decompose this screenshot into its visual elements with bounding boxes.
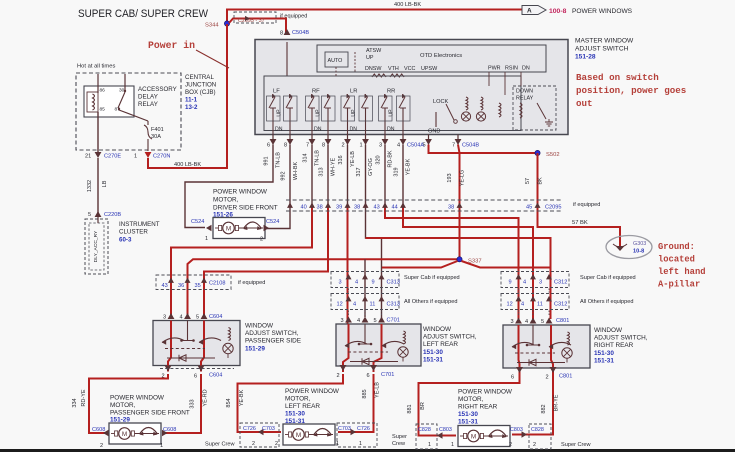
svg-text:100-8: 100-8 [549, 8, 567, 15]
svg-text:11: 11 [370, 302, 376, 308]
svg-text:ADJUST SWITCH,: ADJUST SWITCH, [594, 335, 648, 342]
svg-text:4: 4 [357, 318, 360, 324]
svg-text:C801: C801 [556, 318, 569, 324]
svg-text:Super Cab if equipped: Super Cab if equipped [580, 275, 636, 281]
svg-text:3: 3 [511, 319, 514, 325]
svg-text:C703: C703 [338, 426, 351, 432]
svg-text:5: 5 [541, 319, 544, 325]
svg-text:8: 8 [280, 31, 283, 37]
svg-text:C604: C604 [209, 373, 222, 379]
ground G303 10-8 [606, 236, 652, 259]
wire stubs auto/atsw [335, 67, 337, 76]
svg-text:334: 334 [72, 398, 78, 407]
C2095 pin at x=365.5 [363, 203, 369, 208]
accessory delay relay K-box [84, 86, 134, 117]
connector C313 row2 (All Others) [331, 294, 399, 310]
svg-text:400 LB-BK: 400 LB-BK [174, 162, 201, 168]
bottom black border bar [0, 449, 735, 452]
leader line for Power in [196, 50, 229, 68]
wire 193 YE-LG pin7 to splice S337 (red) [458, 145, 460, 260]
svg-text:A: A [527, 8, 532, 15]
svg-text:151-30: 151-30 [285, 411, 305, 418]
motor M4 right rear [458, 426, 510, 447]
illumination coil L1 [466, 97, 468, 110]
wire 885 YE-LB LR pin6 to motor (red) [338, 374, 374, 432]
svg-text:2: 2 [252, 441, 255, 447]
svg-text:2: 2 [509, 442, 512, 448]
svg-text:6: 6 [367, 373, 370, 379]
wire relay 87 to fuse [119, 110, 148, 121]
svg-text:C701: C701 [387, 318, 400, 324]
svg-text:4: 4 [523, 280, 526, 286]
svg-text:PASSENGER SIDE FRONT: PASSENGER SIDE FRONT [110, 410, 190, 417]
C2095 pin at x=328 [325, 203, 331, 208]
svg-text:38: 38 [354, 205, 360, 211]
svg-text:4: 4 [521, 302, 524, 308]
svg-text:F401: F401 [151, 127, 164, 133]
wire supply into switch internals [286, 42, 288, 76]
wire 317 jog branch H3 (red overlay) [366, 238, 551, 319]
svg-text:1: 1 [360, 143, 363, 149]
svg-text:YE-BK: YE-BK [239, 389, 245, 406]
wire S337 right branch to RR pin5 (red) [462, 261, 551, 268]
svg-text:LB: LB [102, 180, 108, 187]
svg-text:UP: UP [316, 109, 322, 117]
C2108 pin 36 [185, 278, 191, 283]
svg-text:45: 45 [526, 205, 532, 211]
wire 400 LB-BK from C270N to S344 riser (red) [148, 24, 227, 168]
svg-text:43: 43 [374, 205, 380, 211]
svg-text:7: 7 [452, 143, 455, 149]
svg-text:C2095 - 37: C2095 - 37 [238, 18, 265, 24]
svg-text:8: 8 [284, 143, 287, 149]
svg-text:JUNCTION: JUNCTION [185, 82, 216, 89]
svg-text:All Others if equipped: All Others if equipped [580, 299, 633, 305]
svg-text:C270N: C270N [153, 154, 170, 160]
wires electronics to relay area [488, 72, 490, 86]
svg-text:C313: C313 [387, 302, 400, 308]
svg-text:RF: RF [312, 89, 320, 95]
svg-text:151-30: 151-30 [423, 349, 443, 356]
svg-text:85: 85 [100, 107, 106, 113]
svg-text:C803: C803 [439, 427, 452, 433]
svg-text:3: 3 [339, 280, 342, 286]
svg-text:All Others if equipped: All Others if equipped [404, 299, 457, 305]
svg-text:885: 885 [362, 389, 368, 398]
svg-text:151-31: 151-31 [458, 419, 478, 426]
pins C701 bottom [340, 365, 347, 371]
svg-text:151-29: 151-29 [245, 345, 265, 352]
svg-text:YE-RD: YE-RD [203, 389, 209, 406]
svg-text:991: 991 [264, 156, 270, 165]
svg-text:PASSENGER SIDE: PASSENGER SIDE [245, 338, 301, 345]
svg-text:C828: C828 [531, 427, 544, 433]
svg-text:GY-OG: GY-OG [368, 158, 374, 176]
svg-text:1: 1 [205, 236, 208, 242]
svg-text:38: 38 [317, 205, 323, 211]
svg-text:C312: C312 [554, 302, 567, 308]
svg-text:Super Crew: Super Crew [205, 442, 235, 448]
svg-text:BR-YE: BR-YE [554, 394, 560, 411]
connector C313 row1 (Super Cab) [331, 272, 399, 288]
svg-text:TN-LB: TN-LB [276, 152, 282, 168]
svg-text:YE-BK: YE-BK [406, 158, 412, 175]
svg-text:4: 4 [397, 143, 400, 149]
svg-text:151-28: 151-28 [575, 54, 596, 61]
svg-text:C726: C726 [243, 426, 256, 432]
svg-text:35: 35 [195, 283, 201, 289]
svg-text:SUPER CAB/ SUPER CREW: SUPER CAB/ SUPER CREW [78, 8, 208, 20]
svg-text:WINDOW: WINDOW [594, 327, 623, 334]
wire 400 LB-BK top bus (red) [227, 10, 522, 25]
svg-text:AUTO: AUTO [328, 58, 343, 64]
off-page arrow A to POWER WINDOWS 100-8 [522, 6, 546, 15]
connector C828/C803 left of RR motor (dashed) [416, 424, 437, 449]
svg-text:YE-LB: YE-LB [375, 382, 381, 398]
svg-text:OTD Electronics: OTD Electronics [420, 53, 462, 59]
svg-text:Super Crew: Super Crew [561, 442, 591, 448]
svg-text:12: 12 [507, 302, 513, 308]
svg-text:MOTOR,: MOTOR, [213, 197, 239, 204]
illumination lamp LP2 [476, 112, 485, 121]
svg-text:CLUSTER: CLUSTER [119, 229, 148, 236]
svg-text:151-30: 151-30 [458, 411, 478, 418]
wire 333 YE-RD psgr pin6 to motor (red) [164, 374, 201, 433]
svg-text:YE-LB: YE-LB [350, 151, 356, 167]
C2095 pin at x=312 [309, 203, 315, 208]
svg-text:57 BK: 57 BK [572, 220, 588, 226]
svg-text:2: 2 [260, 237, 263, 243]
connector C2095-37 inline (dashed box, if equipped) [234, 12, 276, 23]
svg-text:LEFT REAR: LEFT REAR [285, 403, 320, 410]
down relay contact [537, 103, 546, 119]
wire relay 85 to C270E [97, 112, 99, 152]
pins C604 top [168, 313, 175, 319]
down relay coil [520, 103, 522, 118]
connector C803/C828 right of RR motor (dashed) [529, 424, 551, 449]
svg-text:6: 6 [267, 143, 270, 149]
svg-text:1: 1 [336, 441, 339, 447]
svg-text:INSTRUMENT: INSTRUMENT [119, 221, 160, 228]
wire 314 TN-LB (red power) to passenger switch pin3 [311, 145, 313, 206]
svg-text:36: 36 [178, 283, 184, 289]
splice S344 [224, 21, 229, 26]
pins C604 bottom [165, 366, 172, 372]
C2095 pin at x=403 [400, 203, 406, 208]
svg-text:C828: C828 [418, 427, 431, 433]
svg-text:RD-YE: RD-YE [81, 389, 87, 406]
C2108 pin 43 [168, 278, 174, 283]
master switch electronics inner box OTD [317, 45, 546, 72]
svg-text:1: 1 [134, 154, 137, 160]
svg-text:319: 319 [394, 167, 400, 176]
svg-text:11-1: 11-1 [185, 97, 198, 104]
motor M2 passenger side front [109, 423, 161, 444]
svg-text:C703: C703 [262, 426, 275, 432]
svg-text:6: 6 [194, 374, 197, 380]
svg-text:S502: S502 [546, 152, 560, 158]
pins C801 bottom [516, 367, 523, 373]
svg-text:PWR: PWR [488, 66, 501, 72]
svg-text:C504B: C504B [292, 30, 309, 36]
svg-text:RELAY: RELAY [138, 101, 158, 108]
svg-text:ATSW: ATSW [366, 48, 382, 54]
svg-text:MOTOR,: MOTOR, [110, 402, 136, 409]
C2095 pin at x=459.5 [457, 203, 463, 208]
coil L3 [499, 103, 501, 117]
C2108 pin 35 [201, 278, 207, 283]
svg-text:316: 316 [338, 155, 344, 164]
central junction box CJB (dashed) [76, 73, 181, 150]
svg-text:Crew: Crew [392, 441, 406, 447]
svg-text:GND: GND [428, 129, 440, 135]
svg-text:G303: G303 [633, 241, 646, 247]
svg-text:ADJUST SWITCH,: ADJUST SWITCH, [423, 334, 477, 341]
connector C312 row1 (Super Cab) [501, 272, 569, 288]
svg-text:POWER WINDOW: POWER WINDOW [110, 395, 165, 402]
svg-text:M: M [122, 431, 127, 438]
svg-text:1332: 1332 [87, 180, 93, 192]
svg-text:43: 43 [162, 283, 168, 289]
svg-text:40: 40 [301, 205, 307, 211]
svg-text:if equipped: if equipped [280, 14, 307, 20]
svg-text:BK: BK [538, 177, 544, 185]
svg-text:Ground:: Ground: [658, 242, 695, 252]
svg-text:M: M [226, 225, 231, 232]
wire S344 to C504B (red) [229, 19, 286, 35]
svg-text:if equipped: if equipped [573, 202, 600, 208]
wire 992 WH-BK to driver motor [267, 145, 290, 229]
svg-text:left hand: left hand [658, 267, 706, 277]
svg-text:ACCESSORY: ACCESSORY [138, 86, 177, 93]
svg-text:CENTRAL: CENTRAL [185, 74, 214, 81]
svg-text:out: out [576, 98, 593, 109]
svg-text:RR: RR [387, 89, 395, 95]
window adjust switch WINDOW|ADJUST SWITCH,|LEFT REAR [336, 324, 421, 366]
svg-text:DNSW: DNSW [365, 66, 382, 72]
relay coil [87, 92, 98, 112]
svg-text:POWER WINDOW: POWER WINDOW [458, 389, 513, 396]
UP column box RR [379, 96, 393, 121]
svg-text:151-31: 151-31 [423, 356, 443, 363]
svg-text:400 LB-BK: 400 LB-BK [394, 2, 421, 8]
switch contacts RF [308, 97, 314, 108]
svg-text:317: 317 [356, 167, 362, 176]
svg-text:located: located [658, 255, 695, 265]
wire LF section top stubs [272, 94, 274, 97]
svg-text:LF: LF [273, 89, 280, 95]
wire RR section top stubs [384, 94, 386, 97]
svg-text:WH-BK: WH-BK [293, 162, 299, 181]
svg-text:11: 11 [537, 302, 543, 308]
svg-text:DN: DN [314, 127, 322, 133]
svg-text:UP: UP [366, 55, 374, 61]
svg-text:C2108: C2108 [209, 281, 225, 287]
svg-text:M: M [296, 432, 301, 439]
svg-text:VCC: VCC [404, 66, 415, 72]
svg-text:5: 5 [88, 212, 91, 218]
svg-text:WINDOW: WINDOW [245, 323, 274, 330]
svg-text:5: 5 [374, 318, 377, 324]
svg-text:C803: C803 [510, 427, 523, 433]
svg-text:M: M [471, 433, 476, 440]
svg-text:C504A: C504A [407, 143, 424, 149]
resistor R-VTH [372, 74, 386, 77]
connector C312 row2 (All Others) [501, 294, 569, 310]
wire LR pin4 feed from S337 line [364, 259, 366, 317]
wire 882 BR-YE RR pin2 to motor (red) [512, 374, 553, 435]
svg-text:C726: C726 [357, 426, 370, 432]
svg-text:RIGHT REAR: RIGHT REAR [458, 404, 498, 411]
svg-text:UP: UP [389, 109, 395, 117]
svg-text:C608: C608 [92, 427, 105, 433]
C2095 pin at x=347.5 [345, 203, 351, 208]
fuse F401 30A [144, 121, 152, 151]
svg-text:2: 2 [342, 143, 345, 149]
svg-text:8: 8 [322, 143, 325, 149]
svg-text:YE-LG: YE-LG [460, 170, 466, 187]
connector C703/C726 right of LR motor (dashed) [337, 423, 377, 447]
svg-text:C701: C701 [381, 372, 394, 378]
C312 inter-row dashed ticks [518, 289, 520, 293]
motor M3 left rear [283, 424, 335, 445]
svg-text:5: 5 [196, 315, 199, 321]
svg-text:2: 2 [100, 443, 103, 449]
svg-text:86: 86 [100, 88, 106, 94]
svg-text:314: 314 [303, 153, 309, 162]
svg-text:6: 6 [511, 375, 514, 381]
UP column box RF [306, 96, 320, 121]
wire S337 feed to passenger switch pin4 (red) [188, 259, 459, 315]
svg-text:WINDOW: WINDOW [423, 326, 452, 333]
svg-text:60-3: 60-3 [119, 237, 132, 244]
svg-text:if equipped: if equipped [238, 280, 265, 286]
svg-text:320: 320 [376, 155, 382, 164]
relay contact 30-87 [118, 92, 125, 108]
svg-text:44: 44 [392, 205, 398, 211]
svg-text:DLY_ACC_RY: DLY_ACC_RY [93, 230, 99, 262]
svg-text:DN: DN [275, 127, 283, 133]
UP column box LF [267, 96, 281, 121]
svg-text:C270E: C270E [104, 154, 121, 160]
wire 320 RD-BK (red power) to right-rear switch pin3 [384, 145, 386, 206]
switch contacts LF [269, 97, 275, 108]
svg-text:Hot at all times: Hot at all times [77, 64, 115, 70]
svg-text:TN-LB: TN-LB [315, 150, 321, 166]
connector strip C2095 (if equipped) [286, 199, 563, 201]
svg-text:DN: DN [350, 127, 358, 133]
wire 991 TN-LB to driver motor [185, 145, 273, 228]
svg-text:A-pillar: A-pillar [658, 280, 700, 290]
svg-text:2: 2 [275, 441, 278, 447]
svg-text:4: 4 [525, 319, 528, 325]
svg-text:333: 333 [190, 399, 196, 408]
svg-text:DOWN: DOWN [516, 89, 533, 95]
svg-text:4: 4 [353, 302, 356, 308]
master switch pin row C504A/C504B [272, 135, 274, 140]
master window adjust switch U1 body [255, 40, 568, 135]
svg-text:BR: BR [420, 402, 426, 410]
svg-text:9: 9 [372, 280, 375, 286]
svg-text:4: 4 [180, 315, 183, 321]
svg-text:193: 193 [447, 173, 453, 182]
svg-text:21: 21 [85, 154, 91, 160]
master switch inner routing rect [264, 76, 521, 131]
svg-text:Super: Super [392, 434, 407, 440]
svg-text:POWER WINDOW: POWER WINDOW [213, 189, 268, 196]
C2095 pin at x=290 [287, 203, 293, 208]
svg-text:151-30: 151-30 [594, 350, 614, 357]
svg-text:3: 3 [163, 315, 166, 321]
wire 1332 LB to instrument cluster [97, 158, 99, 213]
wire relay feed stubs [97, 74, 99, 93]
svg-text:DRIVER SIDE FRONT: DRIVER SIDE FRONT [213, 205, 278, 212]
svg-text:BOX (CJB): BOX (CJB) [185, 89, 216, 96]
svg-text:C312: C312 [554, 280, 567, 286]
wire 317 GY-OG to left-rear switch pin5 [366, 145, 382, 320]
svg-text:9: 9 [509, 280, 512, 286]
svg-text:2: 2 [337, 373, 340, 379]
wire 881 BR RR pin6 to motor (red) [419, 374, 520, 436]
window adjust switch WINDOW|ADJUST SWITCH,|RIGHT REAR [503, 325, 590, 368]
wire 319 YE-BK (red power) to right-rear switch pin4 [402, 145, 404, 206]
wire 854 YE-BK LR pin2 to motor (red) [238, 374, 344, 432]
svg-text:DELAY: DELAY [138, 94, 158, 101]
C2095 pin at x=385 [382, 203, 388, 208]
svg-text:30: 30 [119, 88, 125, 94]
svg-text:3: 3 [539, 280, 542, 286]
pins C701 top [345, 317, 352, 323]
switch contacts LR [344, 97, 350, 108]
svg-text:313: 313 [319, 167, 325, 176]
splice S502 [535, 150, 540, 155]
svg-text:39: 39 [336, 205, 342, 211]
svg-text:ADJUST SWITCH,: ADJUST SWITCH, [245, 330, 299, 337]
instrument cluster (dashed) DLY_ACC_RY [85, 219, 108, 274]
wire 316 YE-LB (red power) to left-rear switch pin3 [347, 145, 349, 206]
svg-text:3: 3 [341, 318, 344, 324]
svg-text:4: 4 [355, 280, 358, 286]
svg-text:ADJUST SWITCH: ADJUST SWITCH [575, 46, 629, 53]
svg-text:882: 882 [541, 404, 547, 413]
svg-text:RIGHT REAR: RIGHT REAR [594, 342, 634, 349]
svg-text:13-2: 13-2 [185, 104, 198, 111]
svg-text:992: 992 [281, 171, 287, 180]
down relay (dashed) [513, 86, 556, 130]
svg-text:C2095: C2095 [545, 205, 561, 211]
svg-text:1: 1 [451, 442, 454, 448]
illumination coil L2 [481, 97, 483, 110]
switch contacts RR [381, 97, 387, 108]
svg-text:10-8: 10-8 [633, 249, 644, 255]
svg-text:C604: C604 [209, 314, 222, 320]
wire 313 WH-YE (red power) to passenger switch pin5 [327, 145, 329, 206]
connector C2108 (dashed, if equipped) [156, 275, 231, 290]
wire GND pin5 to S502 (red) [429, 145, 538, 154]
svg-text:Super Cab if equipped: Super Cab if equipped [404, 275, 460, 281]
svg-text:30A: 30A [151, 134, 161, 140]
svg-text:MOTOR,: MOTOR, [285, 396, 311, 403]
C313 inter-row dashed ticks [348, 289, 350, 293]
svg-text:7: 7 [306, 143, 309, 149]
svg-text:POWER WINDOWS: POWER WINDOWS [572, 8, 633, 15]
svg-text:C524: C524 [266, 219, 279, 225]
svg-text:C504B: C504B [462, 143, 479, 149]
svg-text:881: 881 [407, 404, 413, 413]
svg-text:MOTOR,: MOTOR, [458, 396, 484, 403]
svg-text:151-31: 151-31 [594, 357, 614, 364]
resistor R-VCC [390, 74, 404, 77]
